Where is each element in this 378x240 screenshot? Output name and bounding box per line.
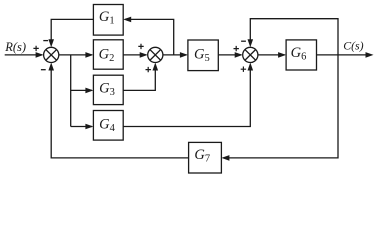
node C(s) output label	[343, 39, 363, 53]
wire summer S3 to block G6	[258, 54, 285, 56]
wire R(s) input to summer S1	[5, 54, 42, 56]
sign - at S1 bottom input	[41, 69, 46, 71]
svg-text:G2: G2	[99, 46, 115, 64]
sign + at S3 left input	[234, 46, 239, 51]
wire G5 output to summer S3	[218, 54, 241, 56]
wire G7 output left and up to S1 bottom input	[51, 65, 188, 158]
wire G3 output up to S2 bottom input	[123, 65, 155, 91]
block G1	[93, 5, 123, 36]
wire summer S1 to block G2	[59, 54, 92, 56]
block G6	[286, 40, 316, 70]
block G3	[93, 75, 123, 104]
wire tap junction up to block G1 input	[125, 19, 174, 55]
wire G2 output to summer S2	[123, 54, 146, 56]
wire G6 output to node C(s)	[317, 54, 372, 56]
node R(s) input label	[4, 40, 26, 54]
wire minor feedback loop from junction to S3 top input	[250, 19, 338, 55]
summer S2	[148, 47, 163, 62]
sign - at S3 top input	[241, 40, 246, 42]
wire branch after S1 down toward G3 and G4	[70, 55, 72, 127]
wire branch stub into block G4	[71, 126, 92, 128]
svg-text:G6: G6	[291, 45, 307, 63]
wire summer S2 to block G5	[163, 54, 187, 56]
wire branch stub into block G3	[71, 89, 92, 91]
svg-text:G4: G4	[99, 116, 115, 133]
sign + at S2 bottom input	[146, 67, 151, 72]
wire G4 output right and up to S3 bottom input	[123, 65, 250, 127]
svg-text:R(s): R(s)	[4, 40, 26, 54]
summer S3	[243, 47, 258, 62]
block G7	[189, 142, 222, 173]
svg-text:G1: G1	[99, 9, 115, 27]
block G4	[93, 111, 123, 141]
sign - at S1 top input	[43, 40, 48, 42]
wire G1 output down to S1 top input	[51, 19, 93, 45]
block G5	[188, 40, 218, 71]
block G2	[93, 40, 123, 69]
summer S1	[44, 47, 59, 62]
sign + at S2 left input	[138, 44, 143, 49]
wire outer feedback from junction down to block G7	[223, 55, 338, 158]
sign + at S1 left input	[33, 46, 38, 51]
svg-text:C(s): C(s)	[343, 39, 363, 53]
svg-text:G5: G5	[194, 47, 210, 65]
sign + at S3 bottom input	[241, 67, 246, 72]
svg-text:G3: G3	[99, 81, 115, 99]
svg-text:G7: G7	[194, 147, 210, 165]
